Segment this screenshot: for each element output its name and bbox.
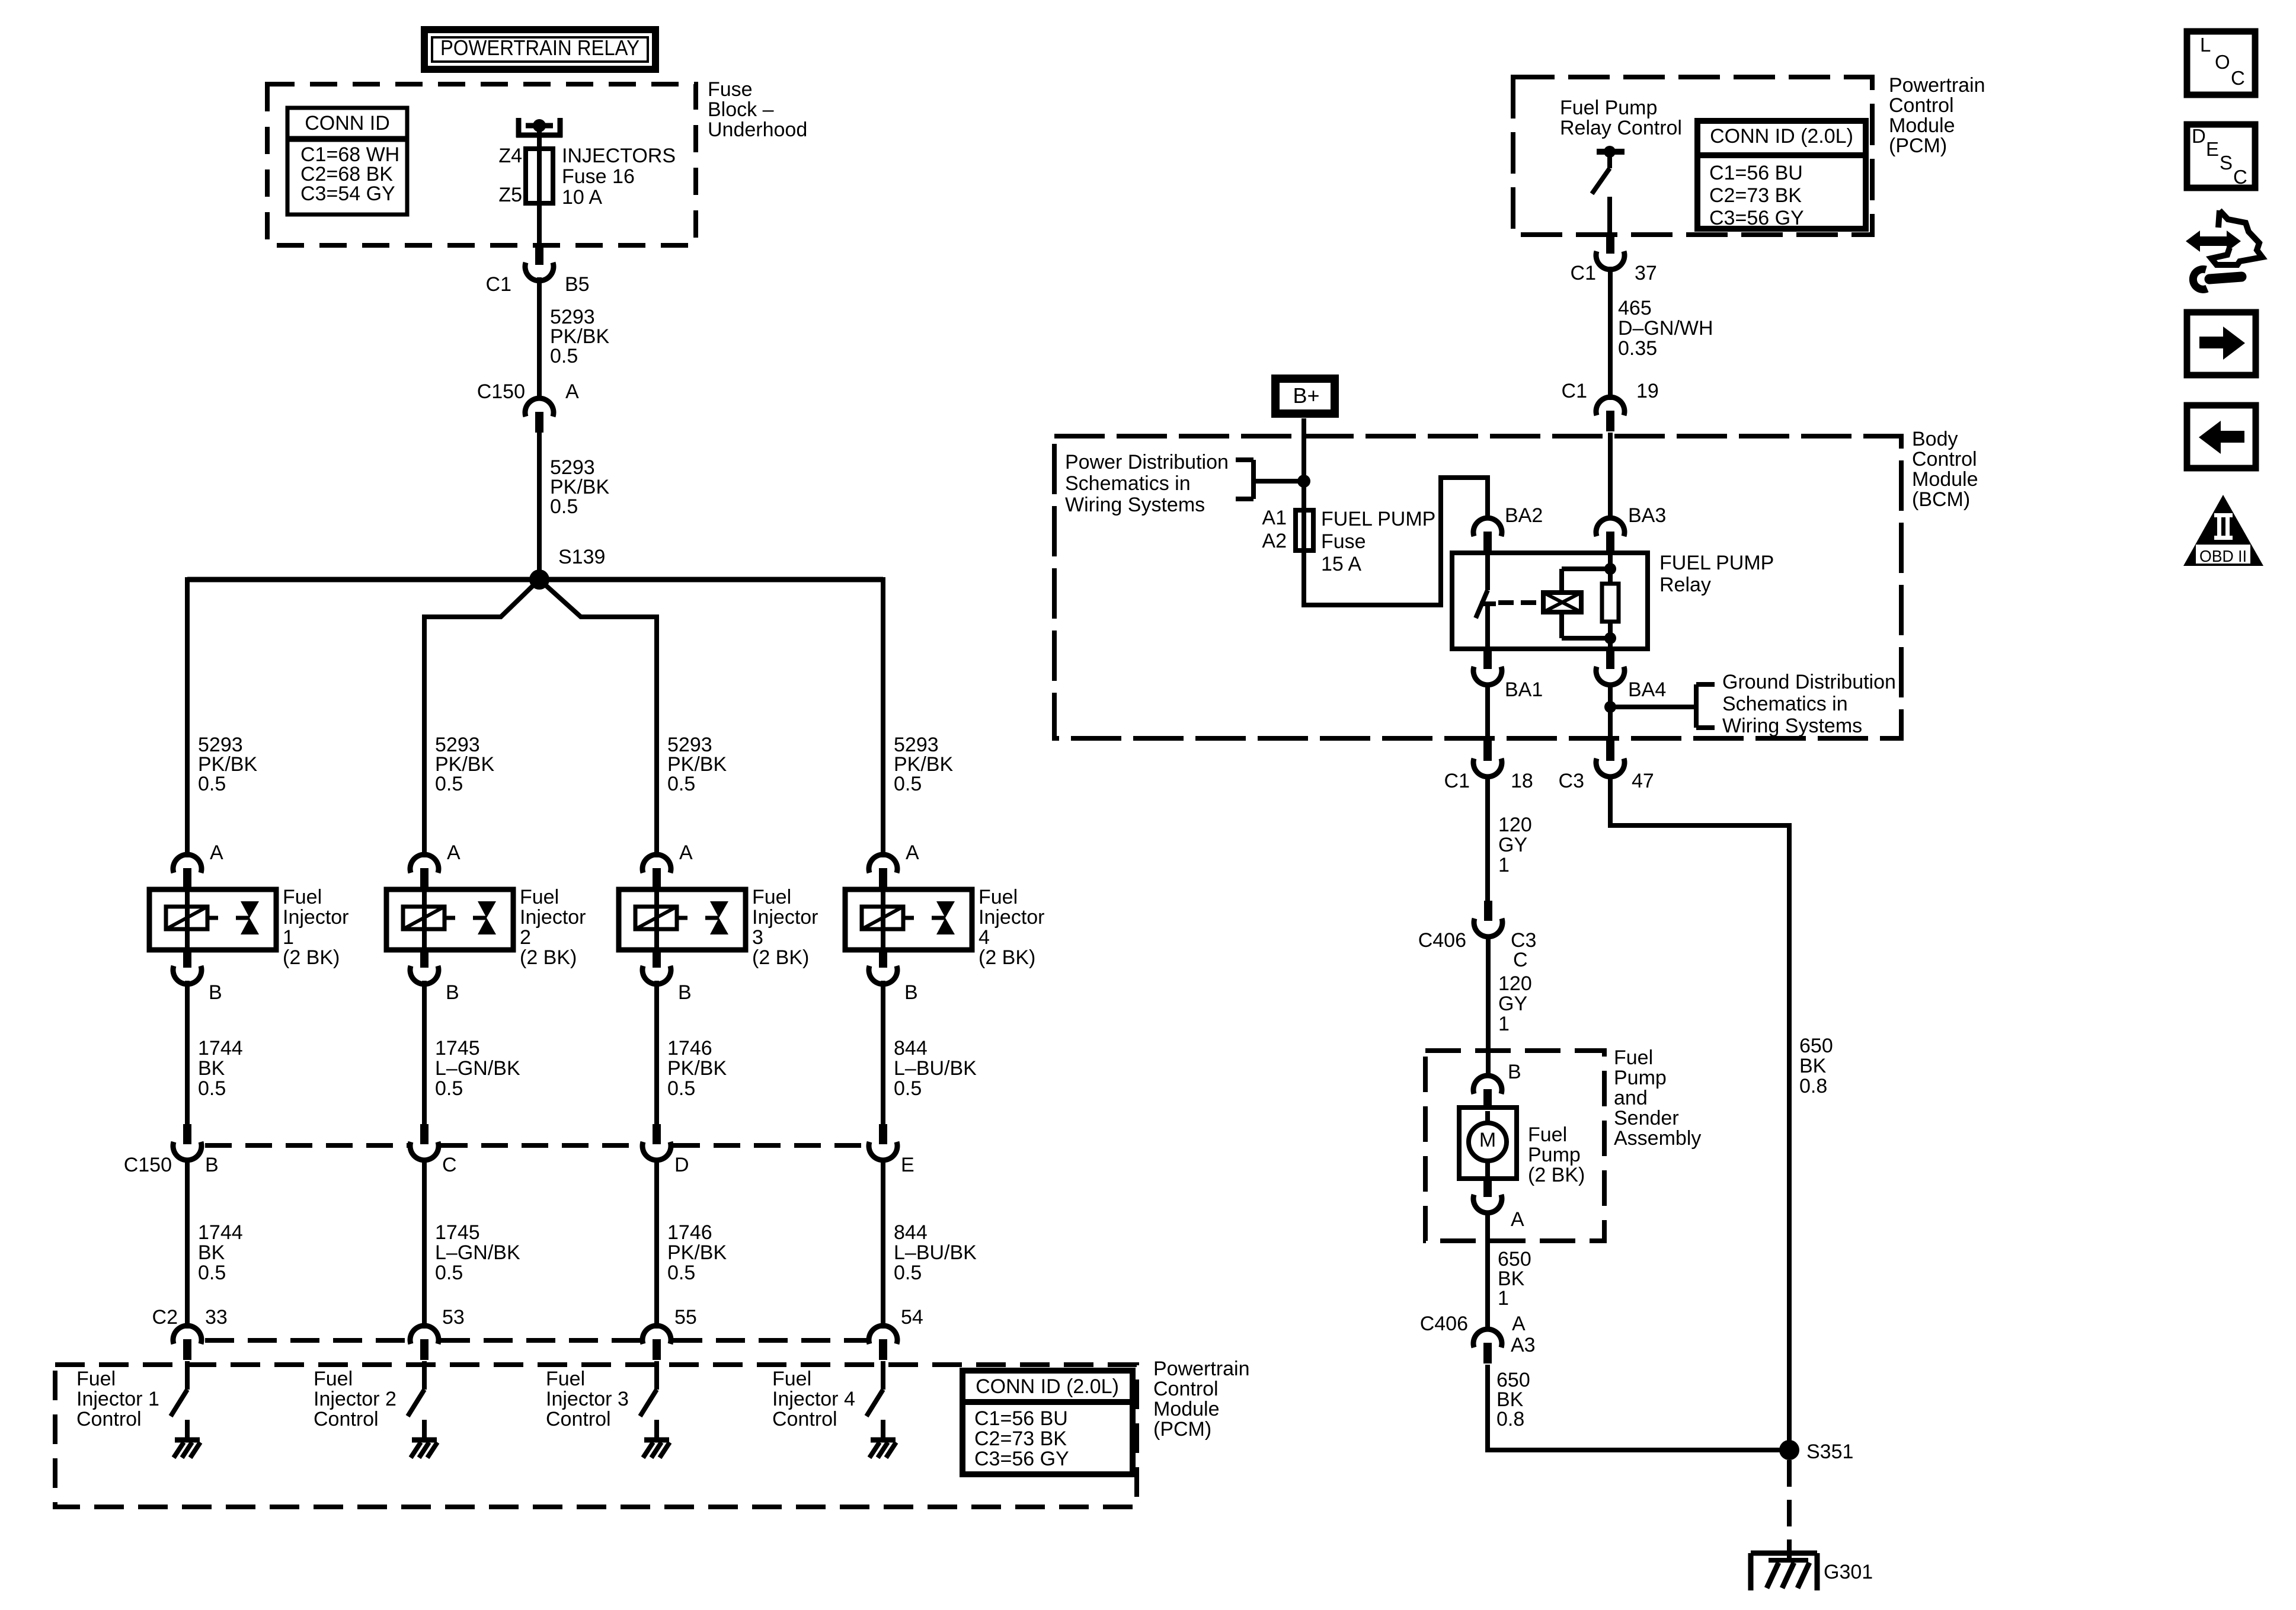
svg-text:Fuel: Fuel [283, 886, 322, 908]
wire 650 BK 0.8 (BCM C3-47 to S351) [1610, 774, 1789, 1450]
svg-text:C: C [1513, 949, 1528, 971]
fuel pump and sender assembly label [1614, 1046, 1701, 1150]
wire label 5293 PK/BK 0.5 [550, 306, 609, 367]
svg-text:0.5: 0.5 [550, 495, 578, 518]
label BA4 [1628, 678, 1666, 701]
fuel injector 3 label [752, 886, 818, 969]
svg-text:B5: B5 [565, 273, 590, 296]
svg-text:B+: B+ [1293, 383, 1319, 408]
svg-text:Wiring Systems: Wiring Systems [1722, 715, 1862, 737]
wire 1745 L–GN/BK 0.5 (injector 2 to C150) [422, 981, 427, 1125]
svg-text:0.8: 0.8 [1799, 1075, 1827, 1097]
svg-text:0.5: 0.5 [198, 1077, 226, 1100]
icon DESC [2187, 124, 2255, 188]
svg-text:B: B [446, 981, 459, 1004]
svg-text:844: 844 [894, 1037, 928, 1060]
svg-text:O: O [2215, 51, 2230, 73]
svg-text:D: D [674, 1154, 689, 1176]
svg-text:0.5: 0.5 [550, 345, 578, 367]
fuse terminal labels Z4 Z5 [498, 145, 522, 206]
label 19 [1636, 380, 1659, 402]
svg-text:Fuel: Fuel [76, 1368, 116, 1390]
wire label 650 BK 0.8 (right) [1799, 1035, 1833, 1097]
svg-text:(2 BK): (2 BK) [978, 946, 1035, 969]
fuse label FUEL PUMP Fuse 15 A [1321, 508, 1435, 575]
node relay coil top [1604, 563, 1616, 575]
fuel injector 1 label [283, 886, 349, 969]
label S351 [1806, 1441, 1853, 1463]
svg-text:Underhood: Underhood [708, 119, 807, 141]
svg-text:(2 BK): (2 BK) [752, 946, 809, 969]
svg-text:L–BU/BK: L–BU/BK [894, 1057, 977, 1080]
connector pin B of fuel injector 2 [410, 949, 439, 984]
svg-text:A: A [679, 841, 693, 864]
svg-text:L: L [2200, 34, 2211, 56]
label 37 [1635, 262, 1657, 284]
svg-text:A3: A3 [1511, 1334, 1536, 1356]
wire branch to injector 1 [185, 577, 190, 857]
label pin number 33 [205, 1306, 228, 1329]
svg-text:Injector: Injector [978, 906, 1045, 929]
svg-text:0.5: 0.5 [435, 1262, 463, 1284]
label B (injector 3) [678, 981, 692, 1004]
wire label 120 GY 1 (second) [1498, 972, 1532, 1035]
wire C1-19 into BCM [1608, 433, 1613, 520]
fuel pump relay control label [1560, 97, 1682, 139]
svg-text:BA3: BA3 [1628, 504, 1666, 527]
label BA3 [1628, 504, 1666, 527]
svg-text:(2 BK): (2 BK) [283, 946, 340, 969]
svg-text:PK/BK: PK/BK [667, 1057, 727, 1080]
svg-text:18: 18 [1511, 770, 1533, 792]
svg-text:C3: C3 [1559, 770, 1584, 792]
connector pin A of fuel injector 1 [173, 854, 202, 889]
svg-text:Relay: Relay [1659, 574, 1711, 596]
connector C150 dashed harness line [205, 1143, 866, 1148]
ground distribution bracket [1610, 684, 1715, 728]
wire label 120 GY 1 [1498, 814, 1532, 876]
svg-text:1: 1 [1498, 854, 1510, 876]
connector C406 pin C3-C [1474, 901, 1502, 937]
svg-text:465: 465 [1618, 297, 1652, 319]
relay terminal BA1 [1473, 649, 1502, 685]
svg-text:0.35: 0.35 [1618, 337, 1657, 360]
svg-text:Control: Control [1912, 448, 1977, 470]
node relay coil bottom [1604, 632, 1616, 644]
svg-text:3: 3 [752, 926, 763, 949]
svg-text:1745: 1745 [435, 1037, 480, 1060]
connector C2 dashed harness line [205, 1338, 866, 1343]
svg-text:15 A: 15 A [1321, 553, 1361, 575]
wire 1744 BK 0.5 (injector 1 to C150) [185, 981, 190, 1125]
svg-text:Powertrain: Powertrain [1153, 1358, 1250, 1380]
fuel pump label [1528, 1124, 1585, 1186]
svg-text:C2=73 BK: C2=73 BK [1709, 184, 1802, 207]
svg-text:CONN ID (2.0L): CONN ID (2.0L) [1710, 125, 1853, 148]
label B (injector 1) [209, 981, 222, 1004]
fuel pump motor [1459, 1108, 1517, 1179]
svg-text:C3=56 GY: C3=56 GY [974, 1448, 1069, 1470]
svg-text:0.5: 0.5 [894, 1262, 922, 1284]
svg-text:and: and [1614, 1087, 1648, 1109]
wire label 465 D-GN/WH 0.35 [1618, 297, 1713, 360]
connector C2 pin 55 [642, 1326, 671, 1360]
svg-text:BA4: BA4 [1628, 678, 1666, 701]
connector table CONN ID (fuse block) [287, 108, 407, 215]
connector pin A of fuel injector 2 [410, 854, 439, 889]
connector table CONN ID (2.0L) PCM bottom [962, 1371, 1133, 1474]
svg-text:C: C [442, 1154, 457, 1176]
svg-text:INJECTORS: INJECTORS [562, 145, 676, 167]
PCM label (top right) [1889, 74, 1985, 157]
label C1 (pin 19) [1562, 380, 1587, 402]
svg-text:S139: S139 [558, 546, 605, 568]
title box POWERTRAIN RELAY [424, 30, 655, 69]
connector pin A (fuel pump) [1473, 1177, 1502, 1213]
label C3 (C406) [1511, 929, 1536, 952]
svg-text:Control: Control [314, 1408, 379, 1430]
svg-text:1746: 1746 [667, 1221, 712, 1244]
svg-text:0.5: 0.5 [435, 773, 463, 795]
connector C3 pin 47 [1596, 741, 1625, 777]
relay terminal BA2 [1473, 518, 1502, 552]
label D (C150) [674, 1154, 689, 1176]
svg-text:C2: C2 [152, 1306, 178, 1329]
wire label 1744 BK 0.5 [198, 1037, 243, 1100]
relay terminal BA3 [1596, 518, 1625, 552]
svg-text:Injector 1: Injector 1 [76, 1388, 159, 1410]
connector table CONN ID (2.0L) PCM top [1697, 121, 1866, 229]
label C1 (pin 37) [1571, 262, 1596, 284]
svg-text:C1: C1 [1562, 380, 1587, 402]
svg-text:(2 BK): (2 BK) [1528, 1164, 1585, 1186]
svg-text:120: 120 [1498, 814, 1532, 836]
icon OBD II [2183, 495, 2263, 566]
PCM dashed box (top right) [1513, 77, 1872, 235]
connector C1 pin B5 [525, 245, 554, 281]
splice bus horizontal wire [187, 577, 883, 582]
svg-text:CONN ID: CONN ID [305, 112, 390, 135]
fuse terminal labels A1 A2 [1262, 507, 1287, 552]
svg-text:Injector: Injector [752, 906, 818, 929]
svg-text:1746: 1746 [667, 1037, 712, 1060]
label A (C406 lower) [1512, 1313, 1526, 1335]
connector C150 pin B [173, 1124, 202, 1160]
connector pin A of fuel injector 3 [642, 854, 671, 889]
svg-text:PK/BK: PK/BK [667, 1241, 727, 1264]
svg-text:Module: Module [1889, 114, 1955, 137]
fuel injector 3 control label [546, 1368, 629, 1430]
relay terminal BA4 [1596, 649, 1625, 685]
svg-text:Injector: Injector [283, 906, 349, 929]
label C (C406) [1513, 949, 1528, 971]
fuel injector 3 control driver (switch to ground) [640, 1361, 670, 1458]
svg-text:Block –: Block – [708, 98, 774, 121]
svg-text:53: 53 [442, 1306, 465, 1329]
svg-text:0.8: 0.8 [1496, 1408, 1524, 1430]
svg-text:GY: GY [1498, 993, 1527, 1015]
relay switch (inside relay) [1476, 553, 1496, 649]
fuse label INJECTORS Fuse 16 10 A [562, 145, 676, 209]
svg-text:Module: Module [1912, 468, 1978, 491]
label S139 [558, 546, 605, 568]
ground distribution reference label [1722, 671, 1896, 737]
label C3 (pin 47) [1559, 770, 1584, 792]
svg-text:L–GN/BK: L–GN/BK [435, 1241, 520, 1264]
svg-text:55: 55 [674, 1306, 697, 1329]
svg-text:A: A [447, 841, 461, 864]
connector C150 pin C [410, 1124, 439, 1160]
connector C2 pin 54 [869, 1326, 897, 1360]
svg-text:A: A [210, 841, 223, 864]
label A3 [1511, 1334, 1536, 1356]
svg-text:Ground Distribution: Ground Distribution [1722, 671, 1896, 693]
svg-text:Schematics in: Schematics in [1065, 472, 1191, 495]
wire label 650 BK 1 [1498, 1248, 1531, 1310]
svg-text:OBD II: OBD II [2199, 547, 2247, 565]
wire 5293 PK/BK 0.5 (C1 to C150) [537, 277, 542, 401]
svg-text:Fuel: Fuel [772, 1368, 811, 1390]
svg-text:Fuel: Fuel [1528, 1124, 1567, 1146]
label C150 [477, 380, 525, 403]
svg-text:120: 120 [1498, 972, 1532, 995]
wire branch to injector 3 (diagonal) [539, 580, 657, 857]
svg-text:D: D [2192, 125, 2206, 147]
splice S351 [1779, 1440, 1799, 1460]
svg-text:C3=54 GY: C3=54 GY [300, 183, 395, 205]
svg-text:650: 650 [1799, 1035, 1833, 1057]
splice S139 [529, 569, 549, 590]
connector C1 pin 37 [1596, 233, 1625, 270]
connector C150 pin A [525, 398, 554, 433]
svg-text:0.5: 0.5 [667, 773, 695, 795]
connector pin B of fuel injector 1 [173, 949, 202, 984]
wire 1746 (C150 to PCM pin 55) [654, 1158, 659, 1329]
svg-text:BA2: BA2 [1505, 504, 1543, 527]
label 18 [1511, 770, 1533, 792]
svg-text:Injector: Injector [520, 906, 586, 929]
svg-text:POWERTRAIN RELAY: POWERTRAIN RELAY [440, 36, 639, 60]
svg-text:33: 33 [205, 1306, 228, 1329]
wire 1745 (C150 to PCM pin 53) [422, 1158, 427, 1329]
label A (C150) [565, 380, 579, 403]
svg-text:A: A [1512, 1313, 1526, 1335]
label E (C150) [901, 1154, 914, 1176]
svg-text:Module: Module [1153, 1398, 1220, 1420]
svg-text:Fuel Pump: Fuel Pump [1560, 97, 1657, 119]
svg-text:37: 37 [1635, 262, 1657, 284]
fuel injector 2 [386, 889, 513, 950]
svg-text:C3=56 GY: C3=56 GY [1709, 207, 1804, 229]
fuel injector 3 [619, 889, 746, 950]
fuel injector 2 label [520, 886, 586, 969]
svg-text:0.5: 0.5 [435, 1077, 463, 1100]
label C2 (harness) [152, 1306, 178, 1329]
svg-text:D–GN/WH: D–GN/WH [1618, 317, 1713, 340]
connector C406 pin A-A3 [1473, 1329, 1502, 1363]
svg-text:1745: 1745 [435, 1221, 480, 1244]
label BA2 [1505, 504, 1543, 527]
wire 1744 (C150 to PCM pin 33) [185, 1158, 190, 1329]
svg-text:B: B [205, 1154, 219, 1176]
label B (injector 4) [904, 981, 918, 1004]
wire label 844 L–BU/BK 0.5 [894, 1037, 977, 1100]
wire 120 GY 1 (C406 to fuel pump) [1486, 934, 1491, 1078]
fuel pump relay label [1659, 552, 1774, 596]
icon forward arrow [2187, 312, 2256, 375]
wire BA1 to C1-18 [1485, 683, 1490, 742]
svg-text:Fuel: Fuel [752, 886, 791, 908]
svg-text:Body: Body [1912, 428, 1958, 450]
svg-text:Injector 4: Injector 4 [772, 1388, 855, 1410]
svg-text:1744: 1744 [198, 1037, 243, 1060]
svg-text:Fuel: Fuel [546, 1368, 585, 1390]
svg-text:(PCM): (PCM) [1153, 1418, 1211, 1441]
connector C1 pin 18 [1473, 741, 1502, 777]
wire label 1744 BK 0.5 (lower) [198, 1221, 243, 1284]
fuel pump relay control driver (switch) [1592, 146, 1625, 237]
wire S351 to ground G301 (dashed) [1787, 1460, 1792, 1551]
label C406 [1418, 929, 1466, 952]
connector pin B of fuel injector 3 [642, 949, 671, 984]
fuel injector 4 [845, 889, 972, 950]
svg-text:Wiring Systems: Wiring Systems [1065, 494, 1205, 516]
fuel injector 1 control label [76, 1368, 159, 1430]
label A (injector 1) [210, 841, 223, 864]
connector C1 pin 19 [1596, 397, 1625, 431]
svg-text:BK: BK [1799, 1055, 1827, 1077]
wire branch to injector 4 [881, 577, 885, 857]
svg-text:0.5: 0.5 [894, 773, 922, 795]
label C150 (harness) [124, 1154, 172, 1176]
svg-text:Z4: Z4 [498, 145, 522, 167]
BCM label [1912, 428, 1978, 511]
svg-text:C406: C406 [1418, 929, 1466, 952]
label B5 [565, 273, 590, 296]
svg-text:CONN ID (2.0L): CONN ID (2.0L) [976, 1375, 1119, 1398]
svg-text:L–BU/BK: L–BU/BK [894, 1241, 977, 1264]
label pin number 54 [901, 1306, 923, 1329]
svg-text:Schematics in: Schematics in [1722, 693, 1848, 715]
svg-text:(PCM): (PCM) [1889, 135, 1947, 157]
label C (C150) [442, 1154, 457, 1176]
svg-text:1744: 1744 [198, 1221, 243, 1244]
label C1 [486, 273, 511, 296]
svg-text:Control: Control [1153, 1378, 1219, 1400]
fuse F16 INJECTORS 10A [526, 149, 553, 203]
wire label 1745 L–GN/BK 0.5 (lower) [435, 1221, 520, 1284]
label BA1 [1505, 678, 1543, 701]
svg-text:4: 4 [978, 926, 990, 949]
connector pin B (fuel pump) [1473, 1076, 1502, 1110]
connector C2 pin 33 [173, 1326, 202, 1360]
svg-text:C1: C1 [1444, 770, 1470, 792]
connector C150 pin E [869, 1124, 897, 1160]
label A (injector 4) [906, 841, 919, 864]
svg-text:S351: S351 [1806, 1441, 1853, 1463]
relay resistor [1602, 553, 1619, 649]
wire label 1746 PK/BK 0.5 (lower) [667, 1221, 727, 1284]
wire label 5293 PK/BK 0.5 (branch 2) [435, 734, 494, 795]
wire B+ feed down [1302, 418, 1306, 511]
powertrain relay output terminal bracket [516, 118, 562, 137]
label B (injector 2) [446, 981, 459, 1004]
svg-text:Relay Control: Relay Control [1560, 117, 1682, 139]
connector C2 pin 53 [410, 1326, 439, 1360]
svg-text:A: A [1511, 1208, 1524, 1231]
svg-text:844: 844 [894, 1221, 928, 1244]
svg-text:BK: BK [198, 1057, 225, 1080]
svg-text:C1=56 BU: C1=56 BU [974, 1407, 1068, 1430]
wire 5293 PK/BK 0.5 (C150 to S139) [537, 433, 542, 580]
svg-text:0.5: 0.5 [667, 1077, 695, 1100]
icon vehicle section with arrow and wrench [2186, 210, 2262, 289]
svg-text:A: A [565, 380, 579, 403]
power distribution reference label [1065, 451, 1229, 516]
wire branch to injector 2 (diagonal) [424, 580, 539, 857]
svg-text:Control: Control [772, 1408, 837, 1430]
wire fuse to connector C1 B5 [537, 203, 542, 244]
svg-text:2: 2 [520, 926, 531, 949]
svg-text:1: 1 [1498, 1013, 1510, 1035]
icon LOC [2187, 31, 2255, 95]
svg-text:Fuel: Fuel [1614, 1046, 1653, 1069]
svg-text:Control: Control [546, 1408, 611, 1430]
svg-text:Fuel: Fuel [314, 1368, 353, 1390]
svg-text:1: 1 [1498, 1287, 1509, 1310]
svg-text:Sender: Sender [1614, 1107, 1679, 1129]
wire label 1746 PK/BK 0.5 [667, 1037, 727, 1100]
svg-text:M: M [1479, 1129, 1496, 1151]
svg-text:C2=73 BK: C2=73 BK [974, 1427, 1067, 1450]
svg-text:B: B [904, 981, 918, 1004]
svg-text:B: B [209, 981, 222, 1004]
fuel injector 2 control label [314, 1368, 396, 1430]
wire label 844 L–BU/BK 0.5 (lower) [894, 1221, 977, 1284]
svg-text:0.5: 0.5 [667, 1262, 695, 1284]
label G301 [1824, 1561, 1873, 1583]
wire label 5293 PK/BK 0.5 (branch 3) [667, 734, 727, 795]
fuse block label [708, 78, 807, 141]
node B+ junction [1297, 475, 1310, 488]
svg-text:GY: GY [1498, 834, 1527, 856]
svg-text:10 A: 10 A [562, 186, 602, 209]
svg-text:Injector 3: Injector 3 [546, 1388, 629, 1410]
svg-text:E: E [901, 1154, 914, 1176]
fuel pump and sender assembly dashed box [1425, 1051, 1604, 1241]
svg-text:C150: C150 [477, 380, 525, 403]
svg-text:Pump: Pump [1528, 1144, 1581, 1166]
svg-text:C: C [2233, 166, 2247, 188]
svg-text:Fuse 16: Fuse 16 [562, 165, 635, 188]
wire 120 GY 1 (C1-18 to C406) [1485, 774, 1490, 901]
svg-text:47: 47 [1632, 770, 1654, 792]
ground G301 [1751, 1551, 1817, 1590]
wire 650 BK 1 [1485, 1211, 1490, 1331]
relay mechanical link (dashed) [1498, 600, 1542, 605]
svg-text:C1: C1 [1571, 262, 1596, 284]
fuel injector 1 [149, 889, 276, 950]
fuel injector 4 control label [772, 1368, 855, 1430]
svg-text:A1: A1 [1262, 507, 1287, 529]
wire 844 L–BU/BK 0.5 (injector 4 to C150) [881, 981, 885, 1125]
fuse FUEL PUMP 15A [1296, 510, 1313, 554]
fuel injector 1 control driver (switch to ground) [171, 1361, 200, 1458]
svg-text:Assembly: Assembly [1614, 1127, 1701, 1150]
svg-text:Control: Control [76, 1408, 142, 1430]
wire label 650 BK 0.8 [1496, 1369, 1530, 1430]
svg-text:Pump: Pump [1614, 1067, 1667, 1089]
